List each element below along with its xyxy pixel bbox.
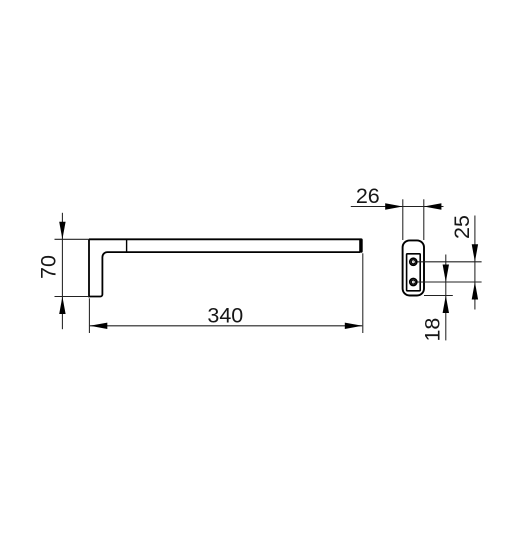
dimension 18: extension line (plate bottom) [424, 295, 453, 297]
svg-text:26: 26 [356, 184, 380, 208]
dimension 26: extension line right [423, 199, 425, 240]
dimension 26: label [356, 184, 380, 208]
towel bar side view: wall-side bracket outline [89, 239, 360, 296]
dimension 70: extension line top [55, 238, 90, 240]
dimension 340: left arrow [90, 323, 108, 329]
dimension 340: right arrow [345, 323, 363, 329]
dimension 340: extension line right [362, 253, 364, 333]
dimension 70: extension line bottom [55, 296, 90, 298]
dimension 18: upper arrow [443, 265, 449, 283]
svg-text:340: 340 [207, 303, 243, 327]
dimension 18: label [421, 318, 445, 342]
towel bar joint line [126, 239, 128, 252]
dimension 340: dimension line [90, 325, 363, 327]
dimension 25: dimension line [474, 216, 476, 310]
screw 2 [410, 278, 417, 285]
svg-text:25: 25 [450, 215, 474, 239]
dimension 26: right arrow [424, 203, 442, 209]
wall plate inner rectangle [407, 254, 421, 291]
dimension 70: upper arrow [59, 222, 65, 240]
dimension 70: lower arrow [59, 297, 65, 315]
dimension 25: extension line upper (screw 1 axis) [418, 261, 482, 263]
dimension 340: label [207, 303, 243, 327]
dimension 25: lower arrow [472, 282, 478, 300]
towel bar side view: top edge [89, 238, 361, 240]
dimension 18: dimension line [445, 255, 447, 341]
dimension 26: extension line left [402, 199, 404, 240]
dimension 340: extension line left [88, 298, 90, 333]
screw 1 [410, 258, 417, 265]
dimension 25: label [450, 215, 474, 239]
dimension 70: dimension line [61, 213, 63, 329]
dimension 18: lower arrow [443, 296, 449, 314]
dimension 25: upper arrow [472, 244, 478, 261]
wall plate outer outline [403, 240, 424, 295]
dimension 70: label [37, 255, 61, 279]
dimension 26: dimension line [351, 206, 444, 208]
dimension 26: left arrow [385, 203, 403, 209]
svg-text:18: 18 [421, 318, 445, 342]
towel bar end cap [359, 238, 363, 252]
dimension 25: extension line lower (screw 2 axis) [418, 281, 482, 283]
svg-text:70: 70 [37, 255, 61, 279]
